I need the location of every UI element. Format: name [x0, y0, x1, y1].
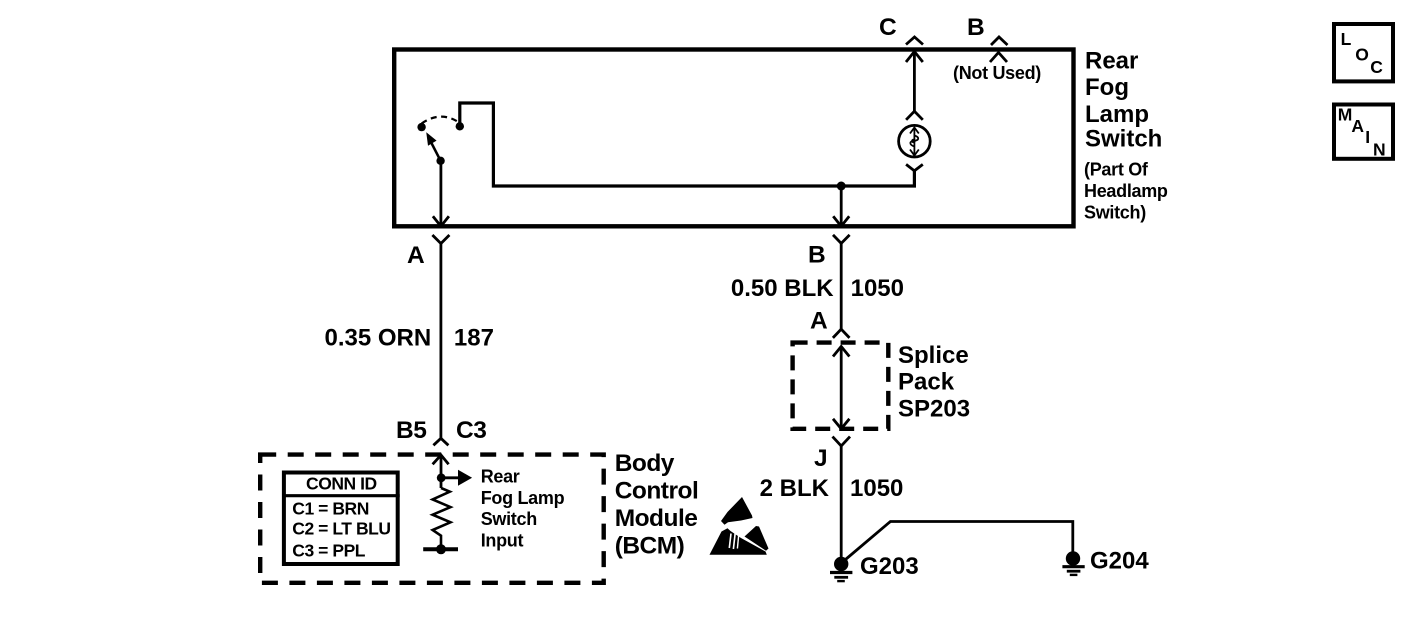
BCM input wire with up arrow — [433, 455, 449, 488]
svg-text:Lamp: Lamp — [1085, 101, 1149, 128]
ESD sensitive symbol — [710, 497, 769, 555]
svg-text:M: M — [1338, 105, 1353, 125]
svg-text:SP203: SP203 — [898, 396, 970, 423]
svg-text:C3 = PPL: C3 = PPL — [292, 541, 366, 561]
pin B chevron below edge — [990, 53, 1007, 63]
svg-text:Fog: Fog — [1085, 74, 1129, 101]
BCM dashed box — [260, 455, 604, 583]
ground G204 — [1062, 551, 1084, 575]
svg-text:187: 187 — [454, 325, 494, 352]
svg-text:C3: C3 — [456, 417, 486, 444]
svg-text:(BCM): (BCM) — [615, 533, 685, 560]
wire junction in switch to pin B with down arrow — [833, 186, 849, 226]
svg-text:1050: 1050 — [851, 275, 904, 302]
wire 0.50 BLK 1050 to splice pack — [840, 243, 843, 329]
svg-text:L: L — [1341, 29, 1352, 49]
connector half above indicator lamp — [906, 111, 923, 120]
svg-text:A: A — [810, 308, 828, 335]
svg-text:1050: 1050 — [850, 475, 903, 502]
switch blade and contacts — [417, 117, 464, 165]
CONN ID table — [282, 473, 400, 565]
svg-text:O: O — [1355, 44, 1369, 64]
svg-text:CONN ID: CONN ID — [306, 474, 377, 494]
wire 2 BLK 1050 to ground G203 — [840, 446, 843, 558]
svg-text:B: B — [808, 242, 825, 269]
svg-text:Switch): Switch) — [1084, 203, 1146, 223]
pin C chevron (male half, above box edge) — [906, 37, 923, 45]
label Rear Fog Lamp Switch — [1085, 47, 1162, 152]
ground G203 — [830, 557, 852, 581]
svg-text:C: C — [879, 14, 897, 41]
junction node in switch — [837, 182, 846, 191]
svg-text:C1 = BRN: C1 = BRN — [292, 499, 369, 519]
svg-text:G203: G203 — [860, 553, 919, 580]
svg-text:Fog Lamp: Fog Lamp — [481, 488, 565, 508]
resistor bottom termination bar with node — [423, 544, 458, 554]
pin J connector half below splice pack — [833, 437, 851, 446]
svg-text:Rear: Rear — [481, 467, 520, 487]
resistor R (BCM pull-up) — [433, 488, 451, 548]
svg-text:0.35 ORN: 0.35 ORN — [324, 325, 431, 352]
svg-text:N: N — [1373, 140, 1386, 160]
svg-text:2 BLK: 2 BLK — [760, 475, 830, 502]
svg-text:B: B — [967, 14, 984, 41]
svg-text:A: A — [1351, 116, 1364, 136]
svg-text:C2 = LT BLU: C2 = LT BLU — [292, 519, 390, 539]
svg-text:Switch: Switch — [481, 509, 537, 529]
svg-text:I: I — [1365, 127, 1370, 147]
label Body Control Module (BCM) — [615, 450, 699, 560]
svg-text:C: C — [1370, 57, 1383, 77]
svg-text:Pack: Pack — [898, 369, 955, 396]
pin A connector half below box — [432, 235, 449, 244]
wire G203 to G204 — [846, 522, 1073, 560]
wire 0.35 ORN 187 from pin A to BCM — [439, 244, 442, 439]
svg-text:Body: Body — [615, 450, 675, 477]
LOC reference box — [1334, 24, 1393, 81]
splice pack SP203 box — [793, 343, 889, 429]
pin B chevron above edge — [991, 37, 1008, 45]
signal arrow to Rear Fog Lamp Switch Input — [441, 470, 472, 486]
svg-text:Switch: Switch — [1085, 125, 1162, 152]
connector chevron at BCM entry — [433, 438, 448, 445]
svg-text:Module: Module — [615, 505, 698, 532]
connector half below indicator lamp — [906, 164, 923, 170]
svg-text:Rear: Rear — [1085, 47, 1138, 74]
splice pack internal wire with arrows — [833, 347, 849, 429]
label Splice Pack SP203 — [898, 342, 970, 423]
wire from switch contact over to lamp branch — [460, 103, 915, 186]
svg-text:(Part Of: (Part Of — [1084, 160, 1149, 180]
svg-text:(Not Used): (Not Used) — [953, 63, 1041, 83]
svg-text:Splice: Splice — [898, 342, 969, 369]
svg-text:G204: G204 — [1090, 548, 1149, 575]
junction node at BCM input — [437, 473, 446, 482]
wire switch pivot down to pin A with arrow — [433, 162, 449, 226]
label (Part Of Headlamp Switch) — [1084, 160, 1168, 223]
MAIN reference box — [1334, 105, 1393, 160]
svg-text:Input: Input — [481, 531, 524, 551]
wire C terminal into lamp, with up arrow — [906, 52, 923, 112]
indicator lamp DS1 — [899, 125, 931, 157]
splice pack entry chevron — [833, 329, 850, 338]
svg-text:0.50 BLK: 0.50 BLK — [731, 275, 834, 302]
svg-text:A: A — [407, 242, 425, 269]
pin B connector half below box — [833, 235, 850, 244]
switch box S1 (Rear Fog Lamp Switch outline) — [394, 50, 1073, 227]
svg-text:Headlamp: Headlamp — [1084, 181, 1168, 201]
svg-text:Control: Control — [615, 478, 699, 505]
label Rear Fog Lamp Switch Input — [481, 467, 565, 551]
svg-text:B5: B5 — [396, 417, 426, 444]
svg-text:J: J — [814, 445, 827, 472]
